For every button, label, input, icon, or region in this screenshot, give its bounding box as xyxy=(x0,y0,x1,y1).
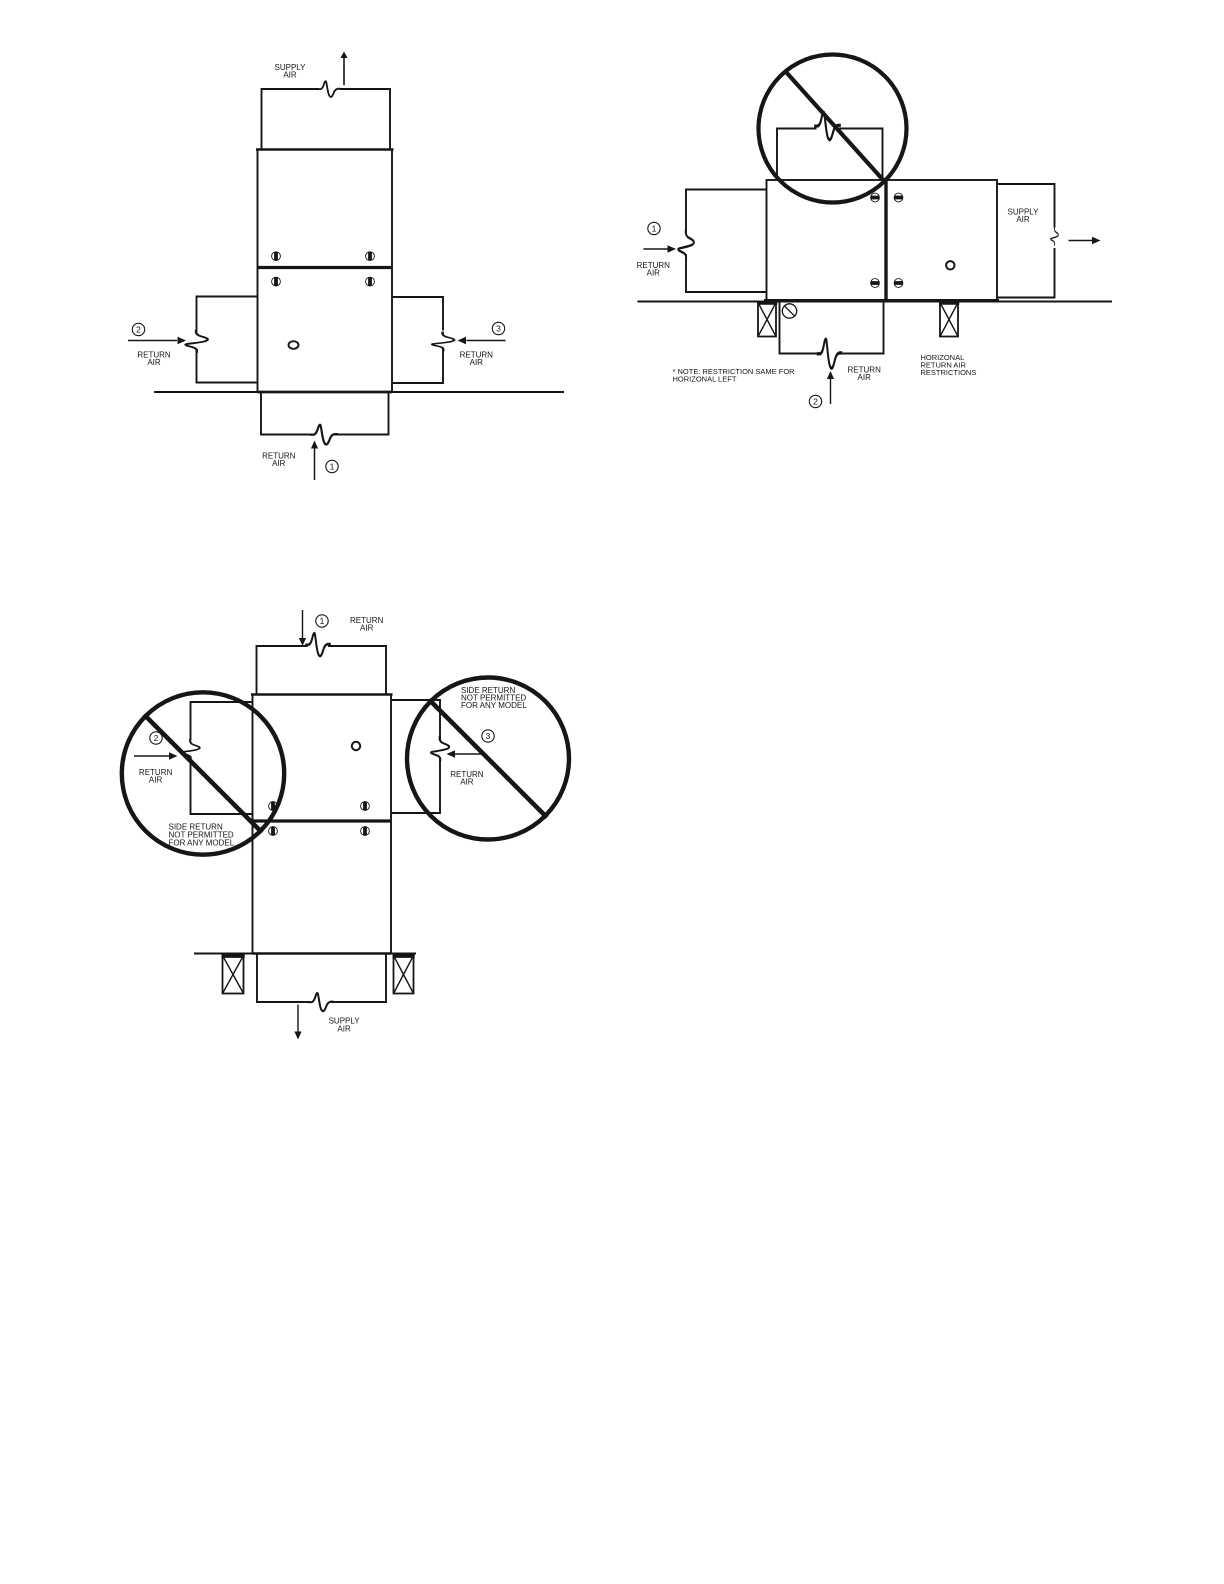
left return duct xyxy=(197,297,258,383)
bottom return duct xyxy=(261,392,389,435)
vertical divider xyxy=(884,180,887,301)
left prohibition circle xyxy=(122,692,284,854)
circled 1 xyxy=(648,222,660,234)
bottom return duct xyxy=(780,302,884,354)
screw bottom-right xyxy=(894,279,903,288)
supply air arrow (down) xyxy=(297,1005,299,1033)
return air arrow (up) xyxy=(830,379,832,405)
left prohibition slash xyxy=(144,715,262,833)
return air arrow (left, pointing right) xyxy=(128,340,177,342)
svg-text:AIR: AIR xyxy=(1016,215,1030,224)
svg-text:AIR: AIR xyxy=(337,1024,351,1033)
svg-text:2: 2 xyxy=(813,397,818,407)
right return duct xyxy=(392,297,443,383)
furnace body xyxy=(253,695,392,954)
screw bottom-left xyxy=(871,279,880,288)
pilot hole xyxy=(946,261,954,269)
supply air duct (top) xyxy=(262,89,391,150)
screw bottom-right xyxy=(366,277,375,286)
prohibition slash xyxy=(786,72,885,182)
screw top-right xyxy=(366,252,375,261)
svg-text:3: 3 xyxy=(496,324,501,334)
svg-text:AIR: AIR xyxy=(470,358,484,367)
circled 2 xyxy=(150,732,162,744)
floor line xyxy=(154,391,564,393)
svg-text:2: 2 xyxy=(154,733,159,743)
crossed-out top duct xyxy=(777,129,883,180)
svg-text:HORIZONAL LEFT: HORIZONAL LEFT xyxy=(673,375,737,384)
blower deck divider xyxy=(258,266,393,269)
svg-text:RESTRICTIONS: RESTRICTIONS xyxy=(921,368,977,377)
blower deck divider xyxy=(253,819,392,822)
duct break squiggle xyxy=(317,81,340,97)
return air arrow (pointing right) xyxy=(644,248,669,250)
pilot hole xyxy=(352,742,360,750)
prohibition circle xyxy=(759,55,907,203)
pilot hole xyxy=(289,341,299,349)
svg-text:AIR: AIR xyxy=(283,71,297,80)
svg-text:2: 2 xyxy=(136,325,141,335)
screw bottom-left xyxy=(269,827,278,836)
circled 1 xyxy=(326,460,338,472)
right prohibition circle xyxy=(407,678,569,840)
unit body xyxy=(767,180,998,301)
screw top-left xyxy=(272,252,281,261)
filter rack left xyxy=(758,303,776,337)
svg-text:AIR: AIR xyxy=(360,624,374,633)
svg-text:AIR: AIR xyxy=(647,269,661,278)
svg-text:1: 1 xyxy=(652,224,657,234)
svg-text:FOR ANY MODEL: FOR ANY MODEL xyxy=(169,838,235,847)
left return duct xyxy=(686,190,767,293)
svg-text:AIR: AIR xyxy=(272,459,286,468)
return air arrow (pointing left) xyxy=(455,753,484,755)
svg-text:1: 1 xyxy=(320,616,325,626)
screw top-right xyxy=(894,193,903,202)
screw bottom-right xyxy=(361,827,370,836)
supply air arrow (pointing right) xyxy=(1069,240,1093,242)
screw bottom-left xyxy=(272,277,281,286)
circled 2 xyxy=(809,395,821,407)
return air arrow (down) xyxy=(302,610,304,639)
small prohibition symbol xyxy=(782,304,796,318)
right prohibition slash xyxy=(429,700,547,818)
return air arrow (pointing right) xyxy=(134,755,170,757)
screw top-left xyxy=(269,802,278,811)
left side duct (not permitted) xyxy=(191,702,253,814)
svg-text:AIR: AIR xyxy=(460,777,474,786)
return air arrow (right, pointing left) xyxy=(467,340,506,342)
svg-text:1: 1 xyxy=(330,462,335,472)
right side duct (not permitted) xyxy=(391,700,440,813)
svg-text:AIR: AIR xyxy=(147,358,161,367)
circled 3 xyxy=(492,322,504,334)
svg-text:3: 3 xyxy=(486,731,491,741)
circled 2 xyxy=(132,323,144,335)
svg-text:AIR: AIR xyxy=(149,776,163,785)
filter rack right xyxy=(393,956,415,994)
filter rack left xyxy=(222,956,245,994)
floor line xyxy=(194,953,416,955)
filter rack right xyxy=(940,303,958,337)
screw top-left xyxy=(871,193,880,202)
screw top-right xyxy=(361,802,370,811)
supply air arrow (up) xyxy=(343,57,345,85)
svg-text:AIR: AIR xyxy=(858,373,872,382)
circled 1 xyxy=(316,615,328,627)
furnace body xyxy=(258,150,393,393)
supply duct (right) xyxy=(997,184,1055,298)
floor line xyxy=(638,301,1113,303)
circled 3 xyxy=(482,730,494,742)
top return duct xyxy=(257,646,387,695)
return air arrow (bottom, pointing up) xyxy=(314,448,316,480)
supply duct (bottom) xyxy=(257,954,386,1003)
svg-text:FOR ANY MODEL: FOR ANY MODEL xyxy=(461,701,527,710)
